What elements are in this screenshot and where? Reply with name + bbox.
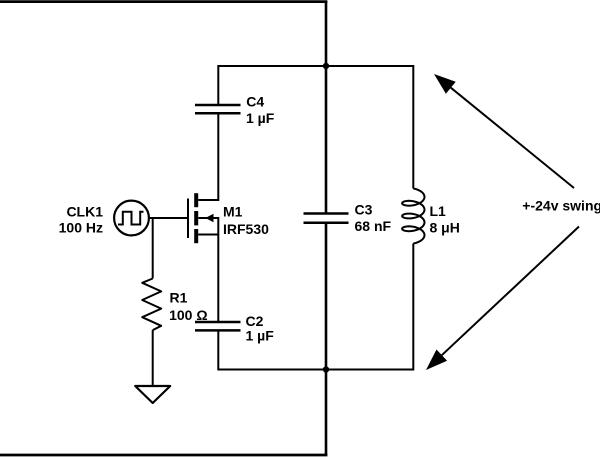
capacitor C4 bbox=[195, 105, 241, 113]
svg-text:L1: L1 bbox=[430, 203, 447, 219]
transistor M1 channel bottom segment bbox=[194, 229, 198, 243]
wire R1 to ground bbox=[152, 330, 154, 386]
annotation arrow line top bbox=[451, 88, 574, 188]
junction dot top rail bbox=[323, 63, 329, 69]
svg-text:+-24v swing: +-24v swing bbox=[522, 198, 600, 214]
outer box right edge lower segment bbox=[325, 370, 328, 456]
annotation arrow line bottom bbox=[442, 227, 579, 356]
transistor M1 channel middle segment bbox=[194, 211, 198, 225]
outer box bottom border bbox=[0, 454, 327, 457]
svg-text:68 nF: 68 nF bbox=[355, 218, 392, 234]
svg-text:C3: C3 bbox=[355, 202, 373, 218]
svg-text:C2: C2 bbox=[246, 313, 264, 329]
transistor M1 channel top segment bbox=[194, 193, 198, 207]
wire body-source to C2 bbox=[198, 218, 218, 322]
resistor R1 bbox=[142, 279, 161, 331]
capacitor C2 bbox=[195, 322, 241, 330]
annotation arrowhead bottom bbox=[426, 350, 447, 371]
wire top rail bbox=[218, 66, 413, 189]
svg-text:100 Ω: 100 Ω bbox=[169, 307, 207, 323]
svg-text:M1: M1 bbox=[223, 204, 243, 220]
svg-text:8 μH: 8 μH bbox=[430, 220, 460, 236]
inductor L1 bbox=[402, 189, 424, 244]
annotation arrowhead top bbox=[434, 74, 456, 94]
wire bottom rail bbox=[218, 244, 413, 370]
ground bbox=[135, 386, 170, 403]
junction dot bottom rail bbox=[323, 366, 329, 372]
transistor M1 gate bar bbox=[187, 199, 189, 239]
wire right edge from top rail to C3 bbox=[325, 66, 328, 214]
svg-text:100 Hz: 100 Hz bbox=[59, 219, 103, 235]
wire source stub bbox=[198, 234, 218, 236]
svg-text:CLK1: CLK1 bbox=[66, 204, 103, 220]
svg-text:1 µF: 1 µF bbox=[246, 110, 275, 126]
outer box right edge upper segment bbox=[325, 2, 328, 66]
svg-text:IRF530: IRF530 bbox=[223, 221, 269, 237]
wire C4 to drain bbox=[198, 113, 218, 200]
wire right edge from C3 to bottom rail bbox=[325, 223, 328, 370]
capacitor C3 bbox=[304, 214, 349, 223]
CLK1 square wave glyph bbox=[118, 212, 144, 225]
outer box top border bbox=[0, 0, 327, 3]
svg-text:R1: R1 bbox=[170, 290, 188, 306]
svg-text:1 µF: 1 µF bbox=[246, 328, 275, 344]
transistor M1 body arrow bbox=[205, 214, 213, 222]
wire CLK1 to gate bbox=[149, 217, 187, 219]
wire junction down to R1 bbox=[152, 218, 154, 279]
svg-text:C4: C4 bbox=[246, 94, 264, 110]
voltage source CLK1 circle bbox=[114, 201, 149, 236]
